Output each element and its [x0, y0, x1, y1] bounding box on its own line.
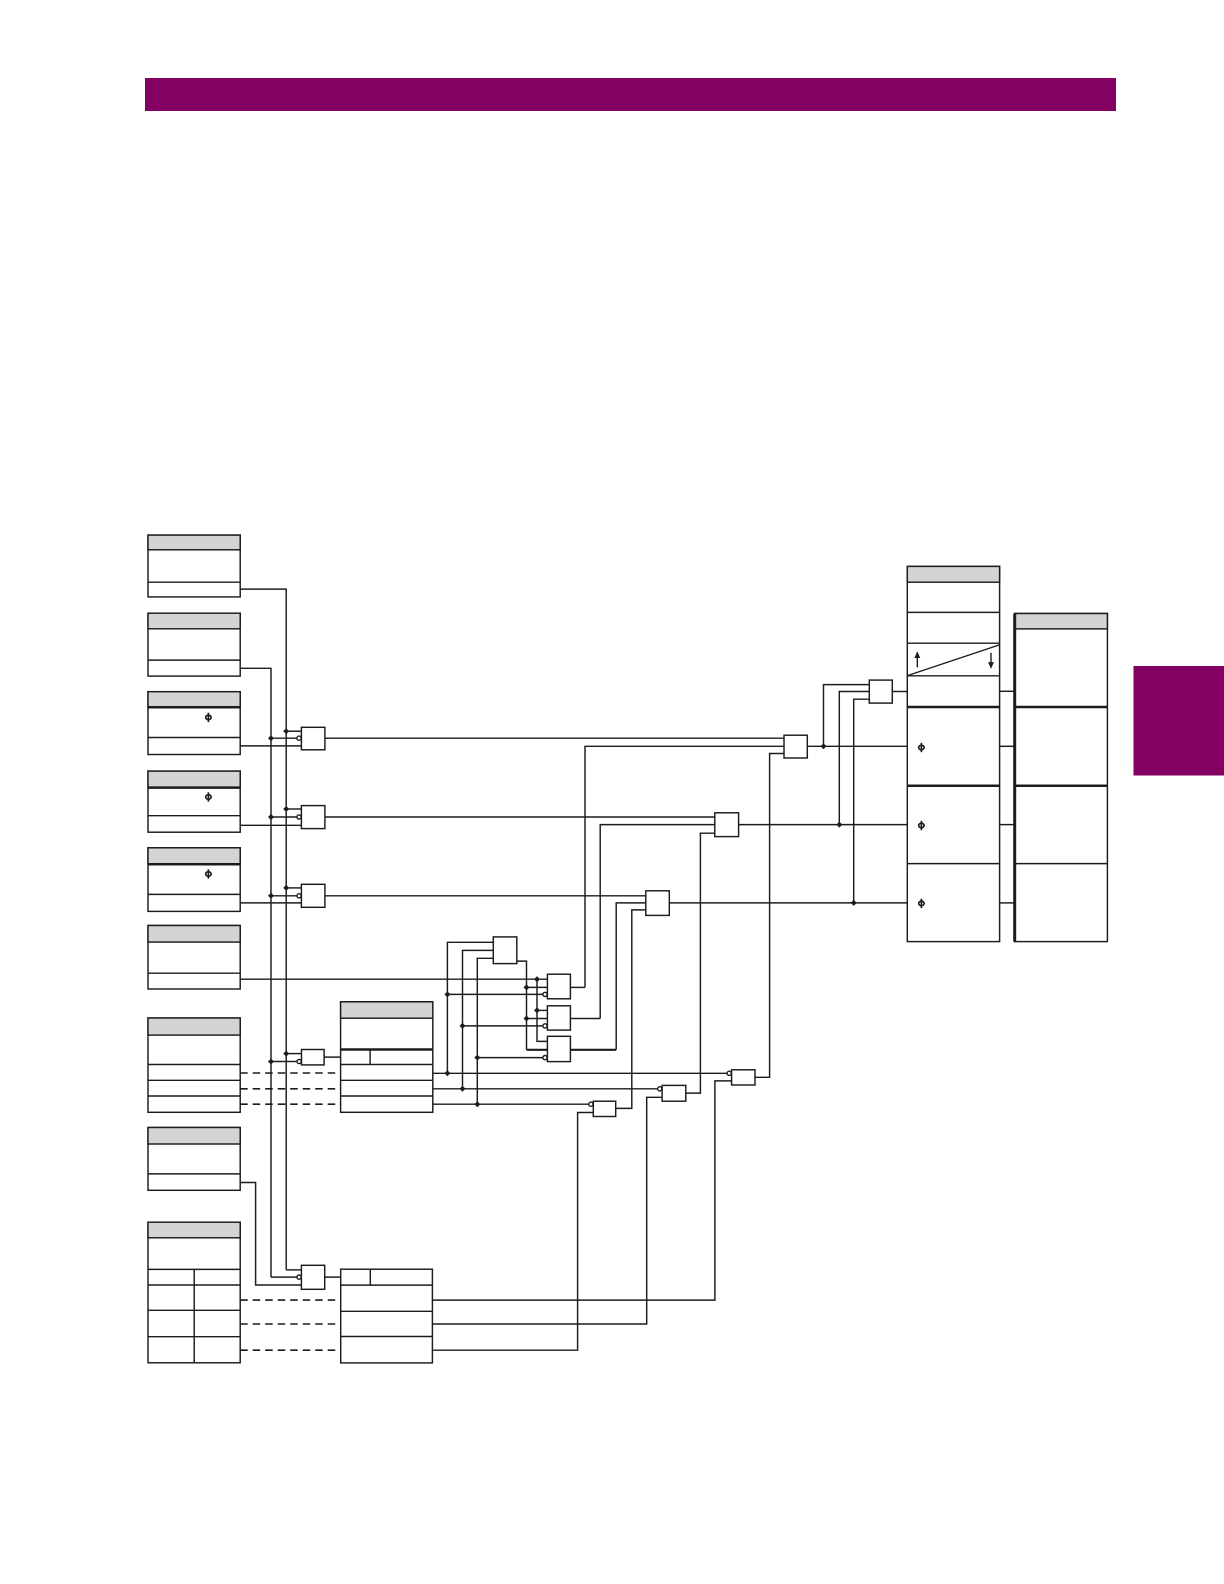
junction riser B: [460, 1086, 466, 1092]
setting box B2: [148, 613, 240, 676]
wire riser B tap to A2 bubble: [463, 1025, 544, 1027]
junction riser A tap: [444, 991, 450, 997]
wire R1 to R2 row 2: [1000, 745, 1015, 747]
wire R1 to R2 row 1: [1000, 690, 1015, 692]
AND gate G1: [240, 727, 784, 750]
AND gate G4: [268, 1050, 341, 1065]
wire G5o output bus: [517, 961, 527, 1050]
side tab marker: [1134, 666, 1224, 776]
operand table T2: [341, 1269, 433, 1363]
setting box B3: [148, 692, 240, 755]
setting box B7: [148, 1018, 240, 1112]
OR gate G5o: [493, 937, 517, 964]
AND gate G3: [240, 884, 646, 907]
OR gate ORT: [869, 680, 907, 703]
operand table T1: [341, 1002, 433, 1113]
wire riser A: [447, 942, 493, 1073]
wire B1 output to bus V1: [240, 589, 286, 1270]
junction G5o bus at A1: [524, 984, 530, 990]
junction riser C tap: [474, 1055, 480, 1061]
timer symbol in R1: [908, 645, 999, 675]
wire riser A tap to A1 bubble: [447, 993, 543, 995]
setting box B5: [148, 848, 240, 912]
wire B6 bus: [537, 979, 547, 1041]
wire B8 output to G5: [240, 1183, 301, 1286]
setting box B4: [148, 771, 240, 832]
wire riser C tap to A3 bubble: [477, 1057, 543, 1059]
setting box B1: [148, 535, 240, 597]
phi symbol R1 phase A: [919, 743, 924, 752]
junction G5o bus at A2: [524, 1016, 530, 1022]
junction riser C: [474, 1101, 480, 1107]
junction B6 bus at A2: [534, 1007, 540, 1013]
setting box B6: [148, 926, 240, 990]
junction B6 bus: [534, 976, 540, 982]
junction riser B tap: [460, 1023, 466, 1029]
AND gate G8: [432, 833, 714, 1324]
phi symbol R1 phase B: [919, 821, 924, 830]
wire B6 output: [240, 978, 547, 980]
AND gate A1: [543, 746, 784, 999]
dashed mapping wires B7 to T1: [240, 1073, 340, 1104]
wire B6 bus tap to A2: [537, 1009, 547, 1011]
wire B2 output to bus V2: [240, 668, 271, 1277]
AND gate A2: [543, 825, 715, 1031]
AND gate G9: [432, 754, 784, 1301]
wire T1 row A: [433, 1072, 727, 1074]
OR gate ORA: [784, 685, 907, 758]
wire G5o bus tap to A3: [527, 1049, 548, 1051]
OR gate ORC: [646, 699, 908, 915]
AND gate G2: [240, 806, 715, 829]
wire T1 row B: [433, 1088, 658, 1090]
OR gate ORB: [715, 692, 908, 837]
element box R1: [907, 566, 999, 941]
AND gate G5: [271, 1265, 341, 1289]
AND gate A3: [543, 903, 646, 1062]
wire T1 row C: [433, 1103, 589, 1105]
wire riser B: [463, 950, 494, 1088]
dashed mapping wires B9 to T2: [240, 1300, 341, 1350]
junction riser A: [444, 1070, 450, 1076]
AND gate G6: [432, 910, 645, 1350]
wire R1 to R2 row 4: [1000, 902, 1015, 904]
wire R1 to R2 row 3: [1000, 824, 1015, 826]
phi symbol R1 phase C: [919, 899, 924, 908]
setting box B9: [148, 1222, 240, 1363]
setting box B8: [148, 1128, 240, 1191]
wire G5o bus tap to A1: [527, 986, 548, 988]
wire G5o bus tap to A2: [527, 1018, 548, 1020]
element box R2: [1015, 614, 1108, 942]
wire riser C: [477, 958, 493, 1104]
page header bar: [145, 78, 1116, 111]
